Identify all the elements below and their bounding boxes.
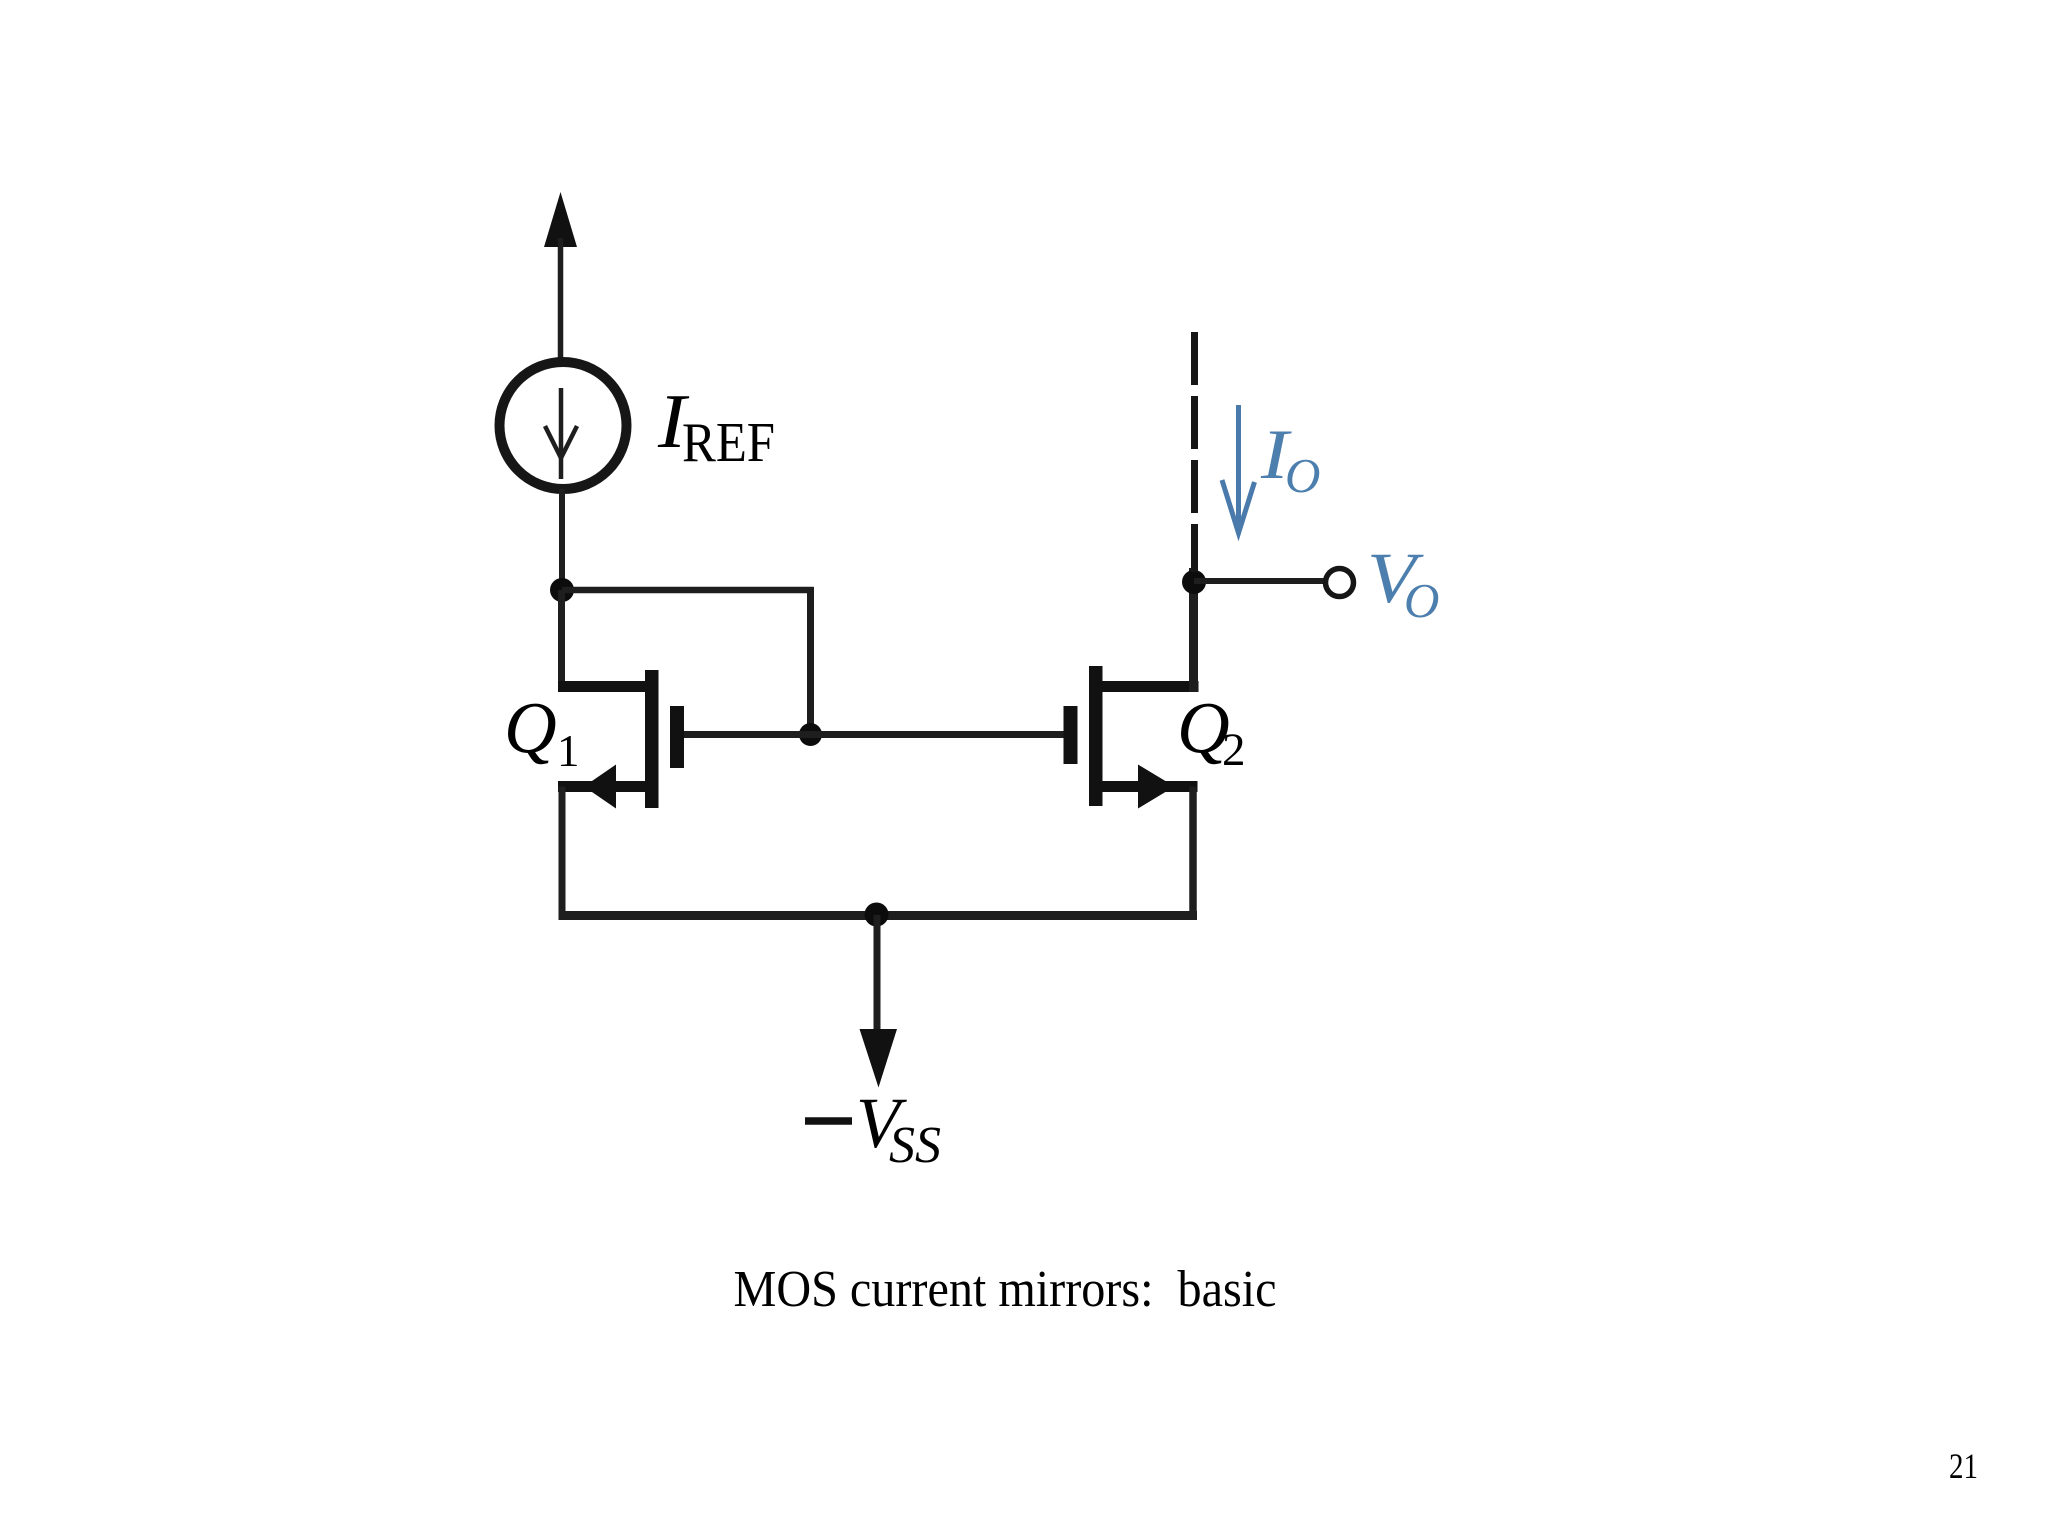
label I_O [1260,416,1321,503]
wire: Q2 drain vertical [1189,568,1198,692]
wire: Q1 source thick horizontal [558,781,646,792]
svg-text:Q: Q [504,688,557,769]
label -VSS [805,1083,941,1174]
wire: Q2 source thick horizontal [1102,781,1198,792]
wire: IREF circle to node A [559,489,565,590]
label I_REF [657,378,775,474]
wire: Q1 drain thick horizontal [558,681,646,692]
wire: bottom source rail [559,911,1198,920]
svg-text:O: O [1285,448,1320,503]
transistor Q2 gate bar [1064,706,1078,764]
wire: node B to output terminal [1194,578,1324,584]
VSS arrowhead [860,1029,898,1088]
wire: gate bus Q1 to Q2 [684,731,1064,738]
blue IO arrow shaft [1236,405,1241,533]
wire: top arrow shaft [558,238,564,358]
transistor Q2 source arrowhead [1138,765,1175,809]
transistor Q1 channel bar [645,670,659,808]
wire: VSS stub [874,915,881,1036]
svg-text:1: 1 [557,726,580,776]
wire: Q1 source vertical [559,787,566,917]
svg-text:21: 21 [1949,1446,1978,1486]
wire: Q2 source vertical [1189,787,1197,917]
gate net junction dot [799,723,822,746]
svg-text:SS: SS [889,1117,941,1174]
transistor Q1 source arrowhead [584,765,616,809]
wire: node A to gate feed corner [562,587,814,594]
blue IO arrowhead [1222,480,1255,533]
power supply arrowhead (top) [544,192,577,247]
rail junction dot [865,903,889,927]
node A junction dot (Q1 drain / gate net) [550,578,574,602]
svg-text:REF: REF [682,412,775,474]
output terminal circle VO [1326,569,1354,597]
transistor Q2 channel bar [1089,666,1103,806]
wire: Q2 drain thick horizontal [1102,681,1199,692]
transistor Q1 gate bar [670,706,684,768]
wire: gate feed vertical down [807,587,814,735]
svg-text:MOS current mirrors: basic: MOS current mirrors: basic [734,1261,1277,1318]
node B junction dot (Q2 drain / output) [1182,570,1206,594]
current source IREF circle [500,362,627,489]
current source IREF internal arrow shaft [559,388,564,479]
svg-text:O: O [1404,573,1439,628]
label V_O [1367,538,1439,628]
dashed output line [1191,332,1198,572]
svg-text:2: 2 [1222,724,1246,776]
wire: Q1 drain vertical [558,590,565,692]
label Q2 [1177,688,1246,777]
current source IREF internal arrowhead [545,426,577,458]
label Q1 [504,688,580,777]
